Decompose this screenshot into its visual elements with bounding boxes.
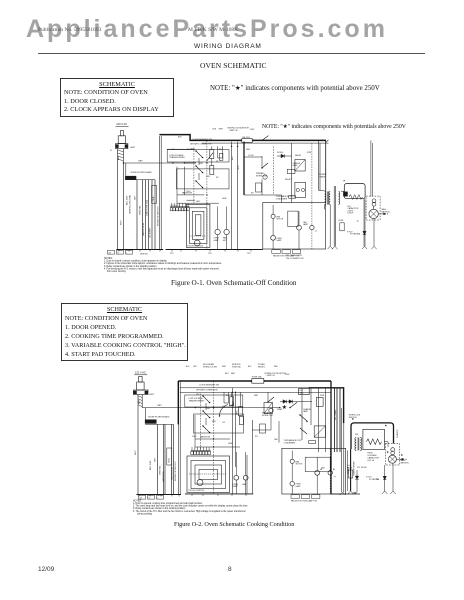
svg-text:1 2 3 4 5 6 7: 1 2 3 4 5 6 7 [171,205,180,207]
svg-text:CONDENSER: CONDENSER [276,198,288,200]
svg-text:R1: R1 [216,161,218,163]
svg-text:GRN/YEL GROUND: GRN/YEL GROUND [129,195,131,214]
svg-text:TRIAC: TRIAC [277,408,283,411]
svg-text:NETRON: NETRON [401,462,410,464]
svg-text:BLK: BLK [213,129,217,131]
svg-text:CN-C: CN-C [192,436,197,438]
svg-text:MOTOR: MOTOR [277,219,284,221]
svg-text:R3: R3 [255,436,257,438]
svg-text:SWITCH: SWITCH [229,130,237,132]
svg-text:GRN: GRN [228,443,233,445]
svg-text:BLK: BLK [178,137,182,139]
svg-text:from oven circuitry.: from oven circuitry. [107,270,127,273]
svg-text:250V: 250V [285,374,290,376]
svg-text:WHT: WHT [246,149,251,151]
svg-text:BLK: BLK [225,373,229,375]
svg-text:2. The oven lamp and fan motor: 2. The oven lamp and fan motor turn on, … [133,505,248,508]
svg-text:CONDENSER: CONDENSER [284,442,296,444]
svg-text:ORG: ORG [238,165,240,170]
svg-text:120 V AC: 120 V AC [116,122,127,126]
svg-text:GRY: GRY [157,405,162,407]
svg-text:★: ★ [343,179,346,183]
svg-text:INTERLOCK: INTERLOCK [262,415,274,417]
svg-text:TP3: TP3 [208,253,211,255]
svg-text:RELAY: RELAY [295,154,302,157]
svg-text:MOTOR: MOTOR [296,464,303,466]
svg-text:120 V AC: 120 V AC [135,371,146,375]
svg-text:GRY: GRY [154,457,156,462]
svg-text:CN-C: CN-C [186,191,191,193]
svg-text:CN: CONNECTOR: CN: CONNECTOR [286,258,304,260]
svg-text:CN-B: CN-B [168,457,170,463]
svg-text:LINE FUSE: LINE FUSE [163,471,165,482]
svg-text:CAV: CAV [274,438,278,441]
svg-text:ORG: ORG [237,410,239,415]
svg-text:1ST.: 1ST. [196,394,200,396]
svg-text:VARISTOR IN: VARISTOR IN [142,222,145,236]
svg-text:FUSE: FUSE [348,467,354,469]
svg-text:PWR: PWR [320,395,325,397]
svg-text:TT: TT [334,477,337,479]
svg-text:FAN MOTOR OVEN LAMP TTM: FAN MOTOR OVEN LAMP TTM [291,499,317,502]
svg-text:CN-A: CN-A [152,196,155,202]
svg-text:INTERLOCK: INTERLOCK [256,175,268,177]
svg-text:RELAY 2: RELAY 2 [258,365,265,368]
svg-text:BLU: BLU [233,401,235,405]
svg-text:★: ★ [333,468,335,471]
svg-text:LAMP: LAMP [293,164,299,167]
svg-text:R1: R1 [223,406,225,408]
svg-text:★: ★ [282,404,287,411]
svg-text:FUSE 15A: FUSE 15A [252,376,262,379]
svg-text:LAMP: LAMP [277,239,283,242]
svg-text:GRN: GRN [222,198,227,200]
svg-text:L: L [127,252,128,254]
svg-text:TOUCH CONTROL: TOUCH CONTROL [188,490,204,492]
svg-text:4. The circuit of the H.V. fil: 4. The circuit of the H.V. filter and th… [133,510,246,513]
svg-text:2ND.: 2ND. [206,408,211,410]
svg-text:WHT: WHT [219,129,224,131]
svg-text:LINE FUSE 15A: LINE FUSE 15A [145,200,148,216]
svg-text:N: N [110,150,112,152]
svg-text:0.95uF: 0.95uF [348,213,355,215]
svg-text:PRI: PRI [355,434,358,436]
svg-text:GRY/WHT CONNECTOR: GRY/WHT CONNECTOR [190,144,212,146]
svg-text:RED: RED [274,366,278,368]
svg-text:GRY: GRY [138,161,143,163]
svg-text:R2: R2 [223,422,225,424]
svg-text:WHT: WHT [135,449,137,455]
svg-text:VARISTOR: VARISTOR [200,436,211,439]
svg-text:R3: R3 [251,193,253,195]
svg-text:★: ★ [320,468,322,471]
svg-text:TT: TT [315,231,318,233]
svg-text:NOISE FILTER OUT: NOISE FILTER OUT [175,460,177,481]
svg-text:WHT: WHT [130,147,136,149]
svg-text:WHT: WHT [222,366,227,368]
svg-text:FUSE: FUSE [339,220,345,222]
svg-text:3. Relay contacts are shown in: 3. Relay contacts are shown in the cooki… [133,507,186,510]
svg-text:GRN/YEL: GRN/YEL [140,254,148,256]
svg-text:TRANS: TRANS [319,175,326,178]
svg-text:★: ★ [386,450,389,454]
svg-text:WHT: WHT [149,394,155,396]
svg-text:3. Relay contacts are shown in: 3. Relay contacts are shown in the stand… [104,265,157,268]
svg-text:TP4: TP4 [247,253,250,255]
svg-text:NETRON: NETRON [382,211,391,213]
svg-text:GRN/YEL: GRN/YEL [139,205,141,215]
svg-text:CN-A WHT: CN-A WHT [148,227,151,238]
svg-text:LAMP: LAMP [233,485,239,488]
svg-text:15A 125V: 15A 125V [242,136,251,139]
svg-text:2ND.: 2ND. [199,163,204,165]
svg-text:GRY: GRY [196,201,201,203]
svg-text:3RD.: 3RD. [206,176,211,178]
svg-text:H.V. DIODE: H.V. DIODE [357,467,367,469]
svg-text:BLK: BLK [248,366,252,368]
svg-text:NOISE FILTER BOARD: NOISE FILTER BOARD [131,171,153,174]
svg-text:2. Figures in the schematic sh: 2. Figures in the schematic show approx.… [104,262,222,265]
svg-text:0.95 uF: 0.95 uF [367,460,375,462]
svg-text:★: ★ [401,453,404,457]
svg-text:BLK 120V: BLK 120V [150,460,152,470]
svg-text:FAN: FAN [243,483,247,486]
svg-text:FILAMENT: FILAMENT [396,428,399,438]
svg-text:FUSE 15A: FUSE 15A [232,365,241,368]
svg-text:RELAY 2: RELAY 2 [285,178,292,181]
svg-text:4. For servicing the H.V. sect: 4. For servicing the H.V. section, note … [104,267,220,270]
svg-text:LAMP: LAMP [214,239,220,242]
svg-text:★: ★ [385,424,388,428]
svg-text:GRY/WHT CONNECTOR: GRY/WHT CONNECTOR [196,390,218,392]
svg-text:WHT: WHT [121,219,123,225]
svg-text:R2: R2 [216,177,218,179]
svg-text:250V: 250V [250,129,255,131]
svg-text:1ST.: 1ST. [190,149,194,151]
svg-text:TOUCH CONTROL: TOUCH CONTROL [187,246,203,248]
svg-text:PWR: PWR [307,152,312,154]
svg-text:BLK: BLK [186,366,190,368]
svg-text:during cooking.: during cooking. [137,512,153,515]
svg-text:BLK: BLK [139,399,141,404]
svg-text:TRANSFORMER: TRANSFORMER [169,156,185,159]
svg-text:VARISTOR IN: VARISTOR IN [171,466,174,480]
svg-text:LAMP: LAMP [303,223,309,226]
svg-text:BLK 120V: BLK 120V [127,195,129,205]
svg-text:LAMP: LAMP [296,485,302,488]
svg-text:L: L [158,497,159,499]
svg-text:NOISE FILTER OUT: NOISE FILTER OUT [157,205,159,226]
svg-text:1. Door is opened, cooking tim: 1. Door is opened, cooking time programm… [133,502,203,505]
svg-text:TRANSFORMER: TRANSFORMER [189,399,205,402]
svg-text:NOISE FILTER BOARD: NOISE FILTER BOARD [148,416,170,419]
svg-text:GRY: GRY [193,366,198,368]
svg-text:POTENTIAL: POTENTIAL [350,233,361,236]
svg-text:GRN/YEL: GRN/YEL [160,465,162,475]
svg-text:TP2: TP2 [170,253,173,255]
svg-text:TP: TP [357,221,360,223]
svg-text:WHT: WHT [231,373,236,375]
svg-text:COOK: COOK [248,155,254,157]
svg-text:SWITCH: SWITCH [267,375,275,377]
svg-text:DOOR SENSING SW: DOOR SENSING SW [193,139,212,141]
svg-text:MOT: MOT [223,240,228,242]
svg-text:DIODE: DIODE [277,152,284,154]
svg-text:3RD.: 3RD. [212,421,217,423]
svg-text:LAMP: LAMP [303,410,309,413]
svg-text:INTERLOCK SW: INTERLOCK SW [203,366,217,368]
svg-text:H.V. TRANS: H.V. TRANS [334,409,337,420]
svg-text:GRY: GRY [135,195,137,200]
svg-text:DOOR SENSING SW: DOOR SENSING SW [200,385,219,387]
svg-text:BLU: BLU [232,156,234,160]
svg-text:WHT: WHT [254,395,259,397]
svg-text:1. Door is closed in above con: 1. Door is closed in above condition, cl… [104,260,168,263]
